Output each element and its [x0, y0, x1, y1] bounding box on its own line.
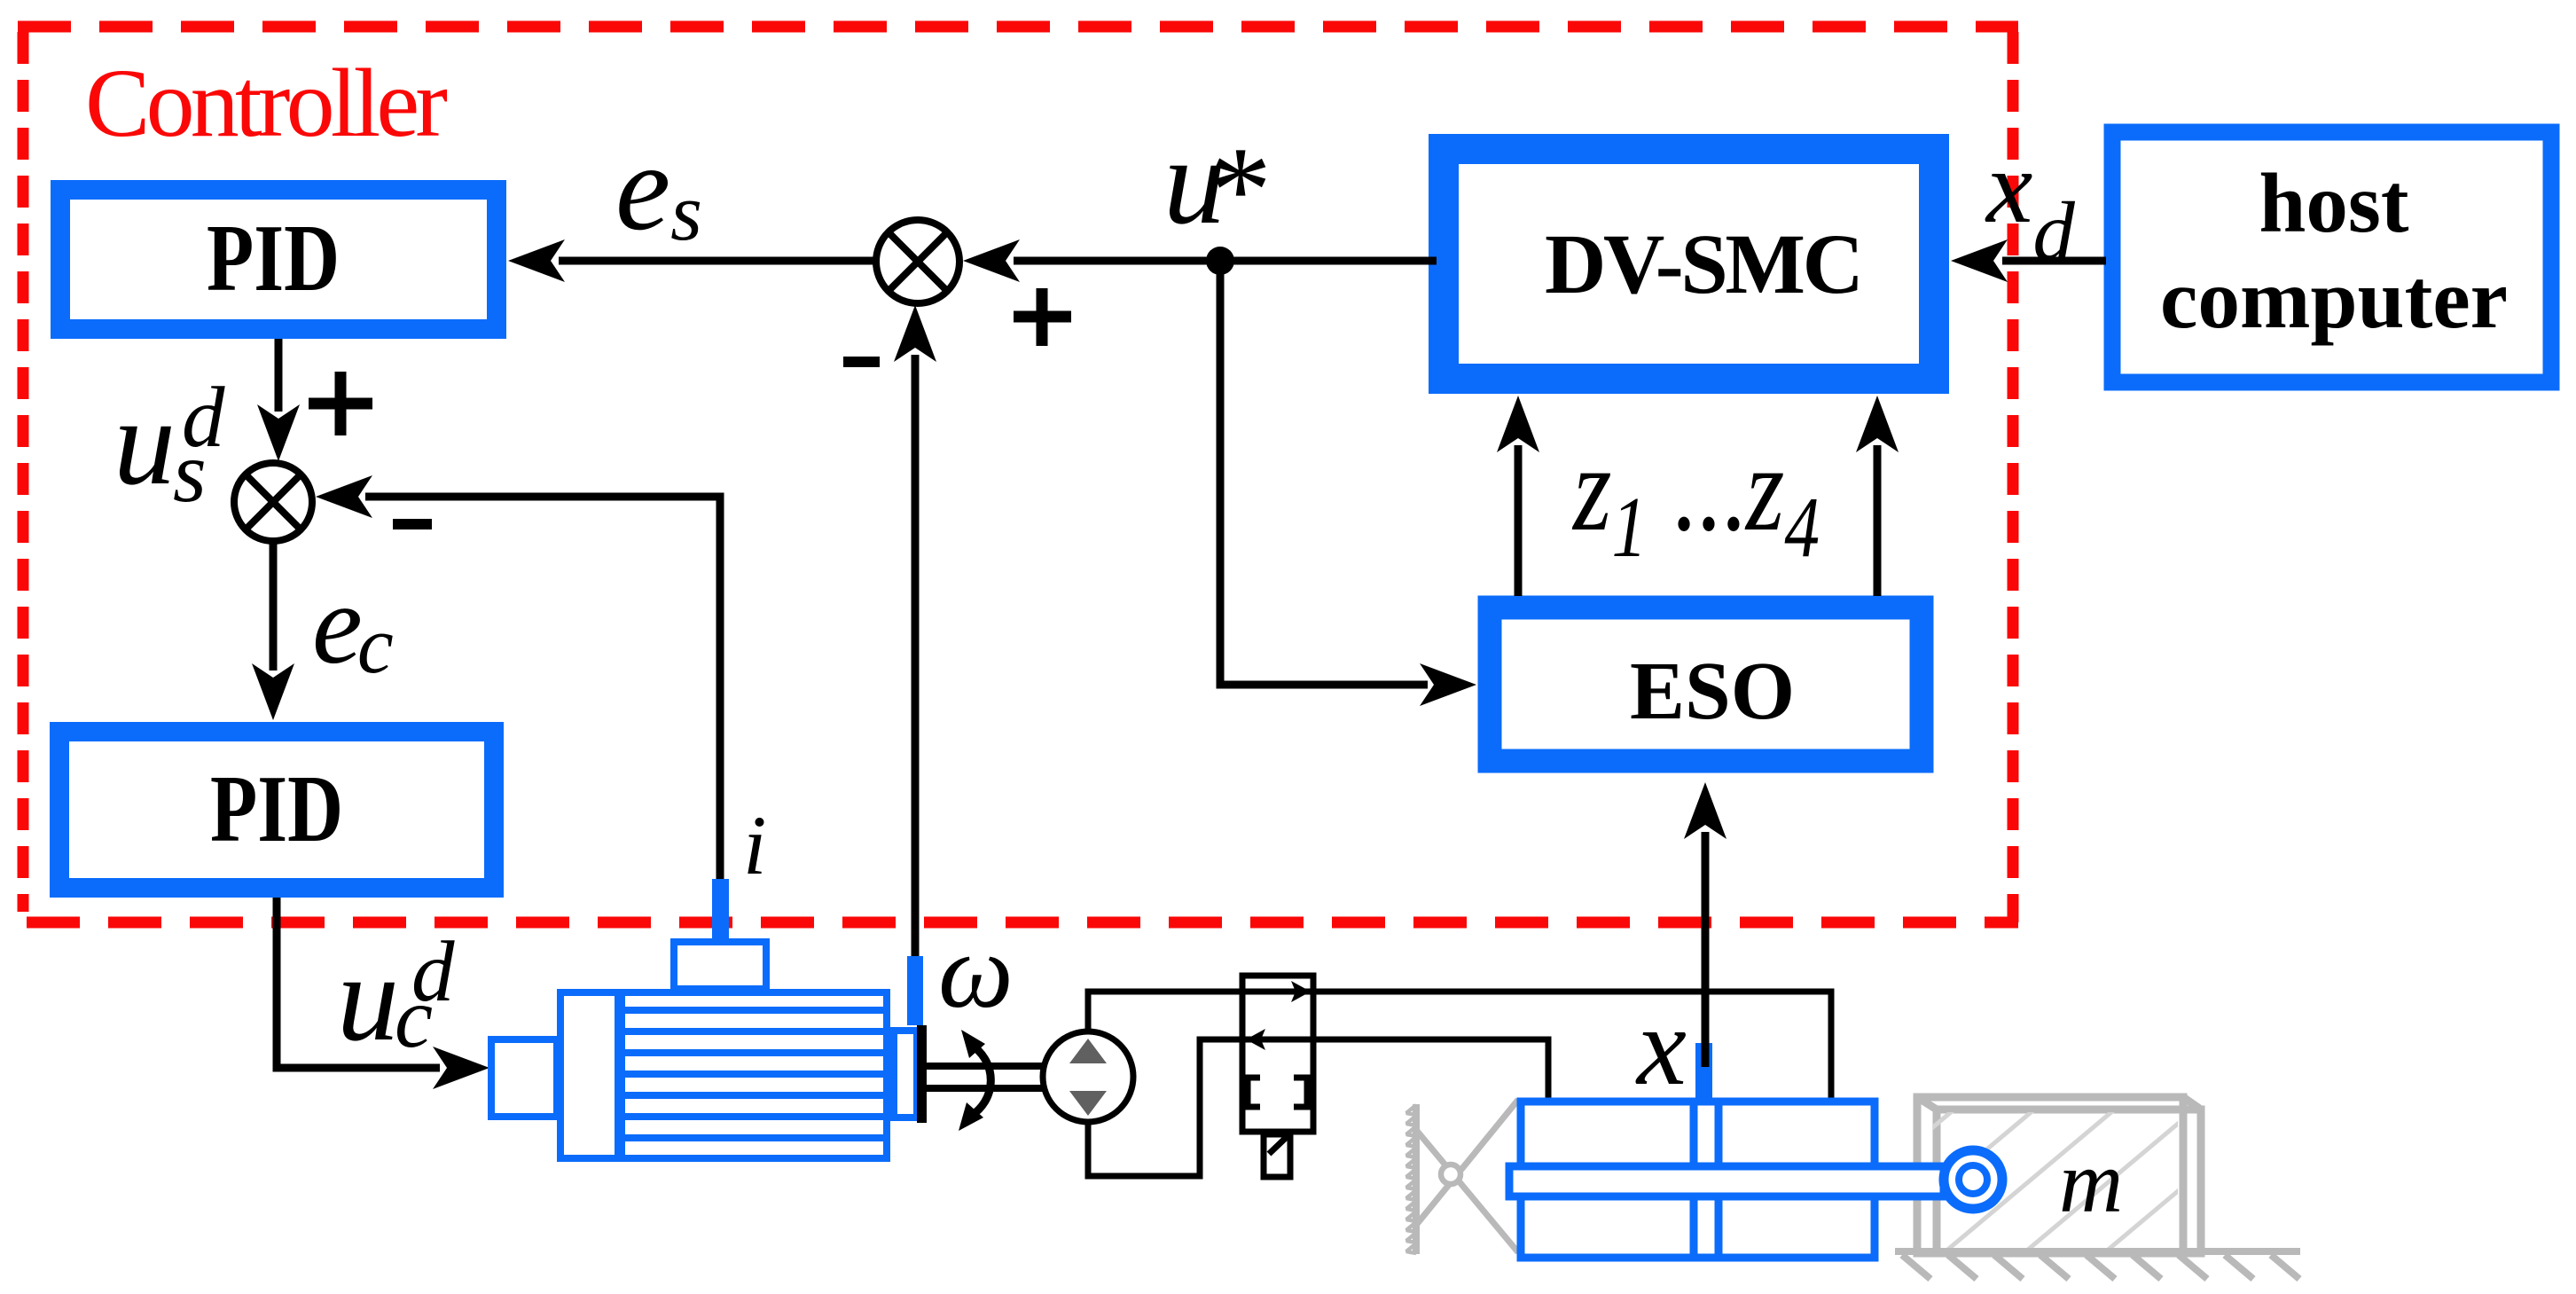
svg-text:ESO: ESO: [1630, 646, 1795, 737]
summing junction 2: [234, 463, 312, 541]
controller dashed boundary: [18, 27, 2018, 922]
wire i feedback to junction 2: [316, 475, 720, 882]
shaft rotation arrow: [959, 1030, 990, 1131]
svg-text:m: m: [2059, 1133, 2123, 1231]
mass block (3d): [1917, 1097, 2201, 1253]
block ESO: [1490, 608, 1922, 761]
sensor pin omega: [907, 956, 923, 1025]
svg-text:u: u: [337, 929, 399, 1067]
svg-text:ec: ec: [312, 561, 394, 690]
motor body: [618, 992, 890, 1158]
svg-text:Controller: Controller: [85, 49, 448, 157]
wire PID2 to motor: [277, 898, 489, 1089]
svg-text:i: i: [743, 798, 766, 892]
svg-text:es: es: [615, 119, 702, 257]
svg-text:xd: xd: [1985, 129, 2075, 278]
motor terminal box: [674, 942, 766, 989]
wire junction 2 to PID2: [252, 541, 294, 720]
svg-text:PID: PID: [207, 206, 340, 311]
wire x sensor to ESO: [1684, 782, 1726, 1065]
svg-text:computer: computer: [2160, 252, 2508, 346]
svg-text:u: u: [114, 373, 176, 511]
hydraulic cylinder: [1521, 1102, 1875, 1258]
block host computer: [2112, 132, 2551, 382]
label minus at junction 2: [393, 519, 432, 529]
svg-text:z1 ...z4: z1 ...z4: [1571, 420, 1820, 576]
block PID1: [60, 190, 497, 329]
pipe pump return to valve to cylinder left chamber: [1088, 1039, 1548, 1176]
rod end coupling: [1944, 1150, 2002, 1209]
motor right bearing block: [894, 1031, 917, 1118]
mass hatching: [1907, 889, 2217, 1294]
shaft flange: [917, 1025, 927, 1123]
label plus at junction 1: [1014, 288, 1071, 346]
wire z1..z4 ESO to DV-SMC right: [1856, 396, 1899, 596]
sensor pin x: [1695, 1043, 1712, 1105]
svg-text:host: host: [2259, 156, 2409, 250]
wire x sensor overlap: [1702, 1043, 1710, 1067]
block PID2: [59, 732, 494, 888]
wire es: summing junction 1 to PID1: [508, 239, 873, 282]
motor shaft: [926, 1066, 1043, 1088]
node u* dot: [1206, 247, 1234, 275]
label plus at junction 2: [309, 372, 372, 435]
ground line under mass: [1895, 1251, 2300, 1279]
svg-text:PID: PID: [210, 757, 343, 862]
svg-text:x: x: [1635, 985, 1687, 1109]
summing junction 1: [876, 220, 959, 303]
support X brace: [1416, 1100, 1518, 1252]
motor mount block: [491, 1039, 557, 1117]
gray support wall: [1406, 1104, 1416, 1254]
svg-text:u*: u*: [1163, 113, 1272, 259]
piston rod: [1509, 1166, 1944, 1196]
block DV-SMC: [1444, 149, 1934, 379]
wire xd: host computer to DV-SMC: [1951, 239, 2106, 282]
wire z1..z4 ESO to DV-SMC left: [1497, 396, 1539, 596]
wire u* to ESO input: [1220, 261, 1476, 706]
label minus at junction 1: [843, 357, 880, 367]
valve closed-port brackets: [1248, 1078, 1307, 1107]
pipe pump to valve to cylinder right chamber: [1088, 992, 1831, 1107]
wire u*: DV-SMC to junction 1: [963, 239, 1437, 282]
motor end bell: [560, 992, 618, 1158]
wire omega feedback to junction 1: [894, 305, 936, 956]
valve body: [1242, 976, 1313, 1132]
valve spool extension: [1264, 1134, 1290, 1177]
support pivot: [1441, 1165, 1460, 1184]
svg-text:DV-SMC: DV-SMC: [1545, 216, 1864, 311]
pump circle: [1043, 1031, 1133, 1122]
svg-text:ω: ω: [938, 912, 1014, 1030]
svg-text:c: c: [395, 970, 433, 1065]
svg-text:s: s: [173, 425, 207, 520]
wire PID1 to junction 2: [257, 339, 300, 461]
sensor pin i: [712, 879, 729, 941]
